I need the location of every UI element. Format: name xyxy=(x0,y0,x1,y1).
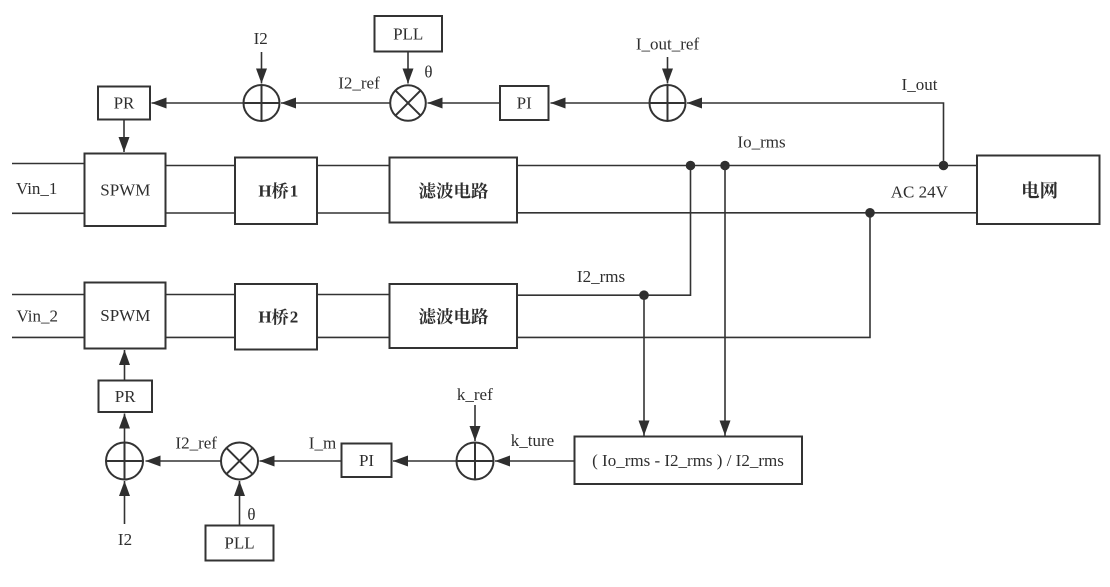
wire SPWM1 to H-bridge1 lower xyxy=(166,212,236,214)
svg-text:PR: PR xyxy=(115,387,136,406)
wire Vin_2 lower lead xyxy=(12,336,85,338)
block H-bridge 2 xyxy=(235,284,317,350)
svg-text:θ: θ xyxy=(424,63,432,82)
wire PR down into SPWM1 xyxy=(123,120,125,153)
svg-text:Io_rms: Io_rms xyxy=(737,133,785,152)
summing junction (I_out_ref, top right) xyxy=(650,85,686,121)
svg-text:I_m: I_m xyxy=(309,433,336,452)
svg-text:Vin_1: Vin_1 xyxy=(16,179,57,198)
block divider (Io_rms - I2_rms)/I2_rms xyxy=(575,437,803,485)
block grid (dianwang) xyxy=(977,156,1100,225)
svg-text:I2_ref: I2_ref xyxy=(175,433,217,452)
label H-bridge 2 text xyxy=(258,307,298,326)
block H-bridge 1 xyxy=(235,158,317,225)
wire H-bridge2 to filter2 upper xyxy=(317,294,390,296)
svg-text:Vin_2: Vin_2 xyxy=(17,307,58,326)
svg-text:H: H xyxy=(258,307,271,326)
wire Io_rms branch down to divider box xyxy=(724,166,726,436)
block PLL (top) xyxy=(375,16,443,52)
junction I2_rms tap xyxy=(639,290,649,300)
wire I_out_ref into summer xyxy=(667,57,669,84)
wire row2 lower output bus to row1 lower bus xyxy=(517,213,870,338)
label filter circuit 2 (Chinese) xyxy=(419,308,488,324)
multiplier (top) xyxy=(390,85,426,121)
wire summer to PR (top) xyxy=(152,102,244,104)
svg-text:AC 24V: AC 24V xyxy=(891,183,949,202)
svg-text:I2_ref: I2_ref xyxy=(338,73,380,92)
junction Io_rms tap on top bus xyxy=(720,161,730,171)
summing junction (I2, bottom left) xyxy=(106,443,143,480)
wire row2 upper output to top bus xyxy=(517,166,691,296)
wire PI to multiplier (bottom) xyxy=(260,460,342,462)
svg-text:k_ture: k_ture xyxy=(511,431,554,450)
wire Vin_1 upper lead xyxy=(12,163,85,165)
wire top bus filter1 to grid xyxy=(517,165,977,167)
wire H-bridge1 to filter1 lower xyxy=(317,212,390,214)
wire I_out sense up and left to summer xyxy=(687,103,944,166)
wire PR up into SPWM2 xyxy=(124,350,126,381)
svg-text:SPWM: SPWM xyxy=(100,306,150,325)
svg-text:I2: I2 xyxy=(118,530,132,549)
svg-text:SPWM: SPWM xyxy=(100,181,150,200)
block PI (top) xyxy=(500,86,549,120)
wire SPWM1 to H-bridge1 upper xyxy=(166,165,236,167)
wire I2 into summer (top) xyxy=(261,52,263,84)
block SPWM (lower) xyxy=(85,283,166,349)
svg-text:PR: PR xyxy=(114,94,135,113)
summing junction (k_ref) xyxy=(457,443,494,480)
wire summer up to PR (bottom) xyxy=(124,414,126,443)
wire multiplier to summer (top) xyxy=(281,102,390,104)
svg-text:H: H xyxy=(258,181,271,200)
wire Vin_1 lower lead xyxy=(12,212,85,214)
wire SPWM2 to H-bridge2 upper xyxy=(166,294,236,296)
wire Vin_2 upper lead xyxy=(12,294,85,296)
wire PLL theta into multiplier (top) xyxy=(407,52,409,84)
wire bottom bus filter1 to grid xyxy=(517,212,977,214)
svg-text:I2_rms: I2_rms xyxy=(577,267,625,286)
svg-text:PLL: PLL xyxy=(393,24,423,43)
wire PI to multiplier (top) xyxy=(428,102,501,104)
block filter circuit 1 xyxy=(390,158,518,223)
svg-text:I_out_ref: I_out_ref xyxy=(636,35,700,54)
junction row2 lower output on bottom bus xyxy=(865,208,875,218)
wire k summer to PI (bottom) xyxy=(393,460,457,462)
block PR (bottom) xyxy=(99,381,153,413)
block SPWM (upper) xyxy=(85,154,166,227)
wire summer to PI (top) xyxy=(551,102,650,104)
svg-text:2: 2 xyxy=(290,307,299,326)
svg-text:( Io_rms - I2_rms ) / I2_rms: ( Io_rms - I2_rms ) / I2_rms xyxy=(592,451,784,470)
svg-text:PLL: PLL xyxy=(224,534,254,553)
svg-text:k_ref: k_ref xyxy=(457,385,493,404)
wire PLL theta into multiplier (bottom) xyxy=(239,481,241,526)
block PLL (bottom) xyxy=(206,526,274,561)
block filter circuit 2 xyxy=(390,284,518,348)
label filter circuit 1 (Chinese) xyxy=(419,182,488,198)
svg-text:I_out: I_out xyxy=(902,75,938,94)
wire SPWM2 to H-bridge2 lower xyxy=(166,336,236,338)
wire I2 into summer (bottom) xyxy=(124,481,126,524)
junction row2-output on top bus xyxy=(686,161,696,171)
label grid (Chinese) xyxy=(1023,181,1057,198)
wire divider output to k summer xyxy=(495,460,575,462)
wire I2_rms branch down to divider box xyxy=(643,295,645,435)
wire k_ref into summer xyxy=(474,405,476,441)
wire H-bridge1 to filter1 upper xyxy=(317,165,390,167)
svg-text:PI: PI xyxy=(517,94,532,113)
svg-text:1: 1 xyxy=(290,181,299,200)
wire multiplier to summer (bottom) xyxy=(146,460,222,462)
label H-bridge 1 text xyxy=(258,181,298,200)
block PI (bottom) xyxy=(342,444,392,478)
block PR (top) xyxy=(98,87,150,120)
svg-text:θ: θ xyxy=(247,505,255,524)
summing junction (I2, top left) xyxy=(244,85,280,121)
svg-text:PI: PI xyxy=(359,451,374,470)
svg-text:I2: I2 xyxy=(254,29,268,48)
junction I_out tap on top bus xyxy=(939,161,949,171)
multiplier (bottom) xyxy=(221,443,258,480)
wire H-bridge2 to filter2 lower xyxy=(317,336,390,338)
